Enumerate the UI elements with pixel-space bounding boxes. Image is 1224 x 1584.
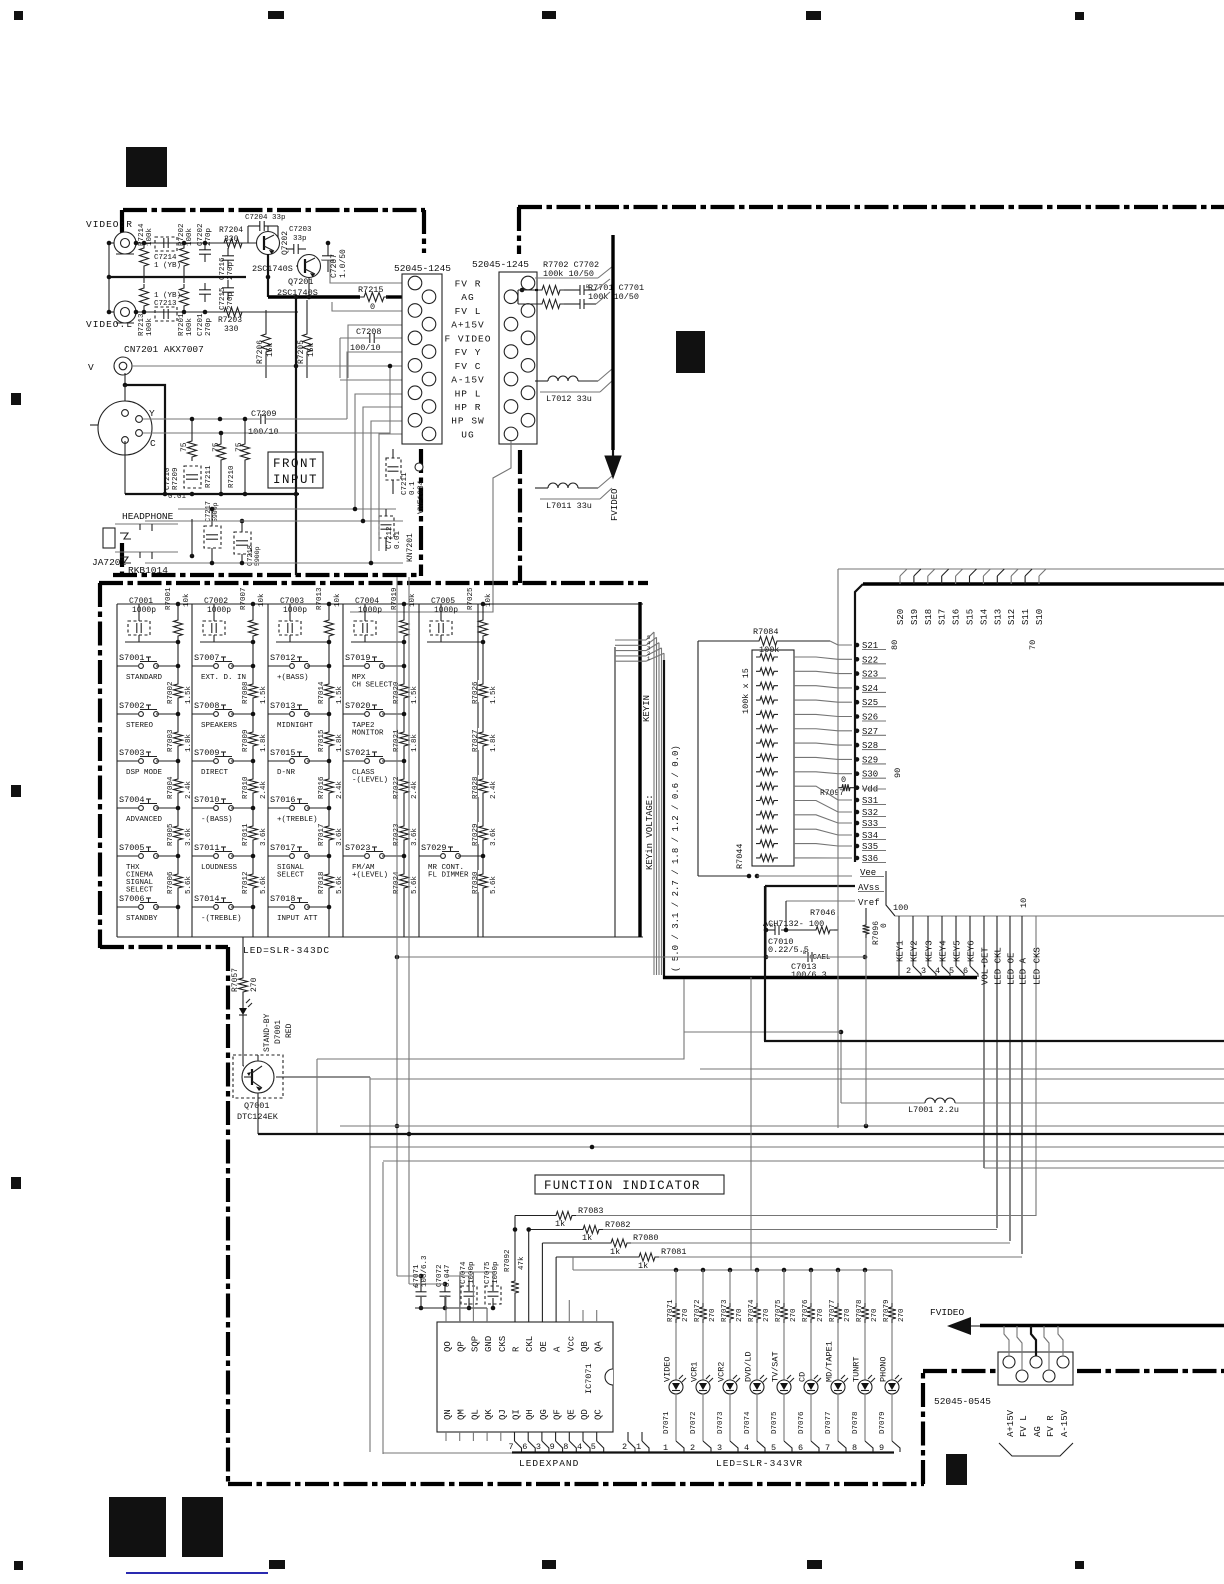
svg-text:LED=SLR-343VR: LED=SLR-343VR [716,1458,803,1469]
svg-text:1: 1 [636,1442,641,1452]
resistor R7016 2.4k [318,775,344,799]
svg-text:INPUT: INPUT [273,473,318,487]
svg-text:10k: 10k [334,593,342,607]
resistor R7009 1.8k [242,728,268,752]
svg-text:R7025: R7025 [467,587,475,610]
IC7071 bottom stubs [446,1432,604,1452]
resistor R7702 capacitor C7702 [535,260,599,295]
LED D7071 VIDEO [663,1270,691,1453]
wire svideo Y [143,352,402,421]
svg-text:3: 3 [717,1443,722,1453]
resistor R7013 10k [316,587,342,640]
svg-text:RED: RED [285,1023,294,1038]
svg-text:R7044: R7044 [735,843,745,869]
svg-text:100/6.3: 100/6.3 [791,970,827,980]
svg-text:VOL-DET: VOL-DET [981,947,991,985]
wire y1126 [340,1124,1224,1129]
svg-text:3.6k: 3.6k [185,827,193,846]
svg-text:STEREO: STEREO [126,722,154,730]
svg-text:R7075: R7075 [775,1299,783,1322]
svg-text:PHONO: PHONO [879,1356,889,1382]
svg-text:2: 2 [906,966,911,976]
svg-text:CH SELECT: CH SELECT [352,682,393,690]
resistor R7018 5.6k [318,870,344,894]
svg-text:R7080: R7080 [633,1233,659,1243]
label CN7201 AKX7007 [124,344,204,355]
svg-text:ADVANCED: ADVANCED [126,816,163,824]
svg-text:HP R: HP R [455,402,482,413]
svg-text:SPEAKERS: SPEAKERS [201,722,238,730]
svg-text:7: 7 [825,1443,830,1453]
svg-text:LED CKS: LED CKS [1033,947,1043,985]
switch S7003 [117,748,180,777]
column 5 bus [427,640,485,937]
wire x841 L7001 net [839,1030,1224,1103]
svg-text:5900p: 5900p [212,502,219,522]
bottom block square 1 [109,1497,166,1557]
IC7071 extra pins 2 1 [622,1432,649,1452]
svg-text:QJ: QJ [498,1409,508,1420]
svg-text:2SC1740S: 2SC1740S [252,264,293,274]
wire y1147 [370,1145,1224,1150]
svg-text:VCR1: VCR1 [690,1362,700,1382]
IC top bus [838,568,1224,570]
svg-text:KEY3: KEY3 [925,940,935,962]
svg-text:1.5k: 1.5k [260,685,268,704]
svg-text:SELECT: SELECT [277,872,305,880]
svg-text:270p: 270p [205,318,213,336]
inductor L7012 [535,369,612,404]
svg-text:3.6k: 3.6k [260,827,268,846]
svg-text:8: 8 [852,1443,857,1453]
wire v jack [123,364,402,388]
svg-text:5: 5 [591,1442,596,1452]
svg-text:D7071: D7071 [663,1411,671,1434]
svg-text:9: 9 [550,1442,555,1452]
cluster wires [766,886,870,957]
capacitor C7002 1000p [203,597,231,642]
wire Q7201 collector to FV R [321,260,402,283]
switch S7006 [117,894,180,923]
svg-text:R7084: R7084 [753,627,779,637]
svg-text:D7079: D7079 [879,1411,887,1434]
resistor R7204 [219,226,246,248]
svg-text:R7019: R7019 [391,587,399,610]
svg-text:4: 4 [744,1443,749,1453]
svg-text:2: 2 [622,1442,627,1452]
resistor R7213 [138,284,154,336]
svg-text:1.5k: 1.5k [185,685,193,704]
capacitor C7214 [154,237,181,270]
svg-text:5.6k: 5.6k [490,875,498,894]
svg-text:D7075: D7075 [771,1411,779,1434]
resistor R7092 47k [504,1249,526,1322]
resistor R7084 100k [698,627,852,655]
svg-text:1k: 1k [582,1233,592,1243]
svg-text:1.8k: 1.8k [260,733,268,752]
capacitor C7074 1000p [460,1261,477,1310]
IC left pins S21-S36 [855,641,886,864]
resistor R7201 [178,284,194,336]
svg-text:( 5.0 / 3.1 / 2.7 / 1.8 / 1.2: ( 5.0 / 3.1 / 2.7 / 1.8 / 1.2 / 0.6 / 0.… [671,745,681,972]
resistor R7025 10k [467,587,493,640]
svg-text:Q7202: Q7202 [281,231,290,255]
svg-text:VIDEO: VIDEO [663,1356,673,1382]
svg-text:C7203: C7203 [289,226,312,234]
wire y1161 [383,1160,1224,1162]
wire y1032 [684,1031,841,1033]
svg-text:R7071: R7071 [667,1299,675,1322]
svg-text:3: 3 [536,1442,541,1452]
svg-text:S19: S19 [910,609,920,625]
svg-text:1k: 1k [610,1247,620,1257]
svg-text:2: 2 [690,1443,695,1453]
svg-text:FV R: FV R [455,279,482,290]
resistor R7024 5.6k [393,870,419,894]
switch S7021 [343,748,406,785]
svg-text:Vdd: Vdd [862,785,878,795]
label 2SC1740S upper [252,264,293,274]
IC7071 top pin labels [443,1336,604,1352]
label HEADPHONE [122,511,174,522]
svg-text:5.6k: 5.6k [336,875,344,894]
resistor R7021 1.8k [393,728,419,752]
wires hp to connector [340,380,402,565]
ladder to pin wires [794,657,852,858]
switch S7017 [268,843,331,880]
capacitor C7210 [168,466,201,501]
svg-text:10k: 10k [409,593,417,607]
svg-text:STANDARD: STANDARD [126,674,163,682]
IC top pins S20-S10 [896,569,1046,625]
capacitor C7202 [197,223,213,262]
svg-text:R7213: R7213 [138,313,146,336]
svg-text:100/6.3: 100/6.3 [421,1255,429,1287]
svg-text:IC7071: IC7071 [584,1363,594,1394]
connector 0545 brace [999,1443,1073,1456]
svg-text:QB: QB [580,1341,590,1352]
svg-text:270: 270 [763,1308,771,1322]
svg-text:9: 9 [879,1443,884,1453]
svg-text:LED=SLR-343DC: LED=SLR-343DC [243,945,330,956]
wire vertical x397 [395,577,400,1276]
svg-text:LEDEXPAND: LEDEXPAND [519,1458,579,1469]
wire thick emitter bus [266,254,402,297]
svg-text:1000p: 1000p [132,606,156,615]
svg-text:STAND-BY: STAND-BY [263,1013,272,1052]
svg-text:FV R: FV R [1046,1415,1056,1437]
svg-text:R7079: R7079 [883,1299,891,1322]
svg-text:C7003: C7003 [280,597,304,606]
svg-text:A+15V: A+15V [1006,1409,1016,1437]
resistor R7211 [205,431,226,494]
registration mark left 3 [11,1177,21,1189]
label keyin voltage values [671,745,681,972]
svg-text:R7046: R7046 [810,908,836,918]
resistor R7029 3.6k [472,822,498,846]
resistor R7096 [872,921,889,945]
svg-text:3.6k: 3.6k [411,827,419,846]
capacitor C7208 [340,327,402,378]
svg-text:S15: S15 [966,609,976,625]
svg-text:D7078: D7078 [852,1411,860,1434]
capacitor C7203 [286,226,312,254]
wire thick front vertical [294,295,299,575]
headphone wires [145,507,403,566]
svg-text:QD: QD [580,1409,590,1420]
IC pin numbers 80 90 100 70 10 [890,640,1038,913]
svg-text:CKL: CKL [525,1336,535,1352]
svg-text:1.5k: 1.5k [336,685,344,704]
RCA jack VIDEO R [114,232,136,254]
switch S7009 [192,748,255,777]
svg-text:-(BASS): -(BASS) [201,816,233,824]
svg-text:S18: S18 [924,609,934,625]
svg-text:L7011 33u: L7011 33u [546,501,592,511]
resistor R7003 1.8k [167,728,193,752]
svg-text:C7209: C7209 [251,409,277,419]
label R7044 [735,843,745,869]
svg-text:15k: 15k [266,342,275,357]
display-unit assembly border [228,947,1224,1485]
FVIDEO bus vertical [611,235,614,450]
svg-text:QO: QO [443,1341,453,1352]
transistor Q7001 DTC124EK [233,1022,283,1134]
svg-text:TUNRT: TUNRT [852,1356,862,1382]
svg-text:D7072: D7072 [690,1411,698,1434]
registration mark top 2 [268,11,284,19]
svg-text:80: 80 [890,640,900,650]
switch S7010 [192,795,255,824]
svg-text:1000p: 1000p [358,606,382,615]
svg-text:QP: QP [457,1341,467,1352]
resistor R7022 2.4k [393,775,419,799]
svg-text:S11: S11 [1021,609,1031,625]
svg-text:R7203: R7203 [218,316,242,325]
wire vertical x838 [837,569,839,1128]
svg-text:DVD/LD: DVD/LD [744,1351,754,1382]
label VIDEO:L [86,319,133,330]
resistor R7082 1k [513,1220,997,1322]
svg-text:KEY1: KEY1 [896,940,906,962]
svg-text:Q7201: Q7201 [288,277,314,287]
registration mark bottom 5 [1075,1561,1084,1569]
page block mark B [676,331,705,373]
svg-text:FV Y: FV Y [455,347,482,358]
svg-text:270: 270 [736,1308,744,1322]
svg-text:Q7001: Q7001 [244,1101,270,1111]
svg-text:FV C: FV C [455,361,482,372]
svg-text:VCR2: VCR2 [717,1362,727,1382]
svg-text:1: 1 [663,1443,668,1453]
resistor R7083 1k [515,1206,1036,1277]
svg-text:QE: QE [566,1409,576,1420]
svg-text:5: 5 [949,966,954,976]
svg-text:AG: AG [1033,1426,1043,1437]
svg-text:QL: QL [470,1409,480,1420]
svg-text:R7001: R7001 [165,587,173,610]
svg-text:3.6k: 3.6k [336,827,344,846]
svg-text:6: 6 [963,966,968,976]
wire Q7202 collector [268,226,278,238]
FUNCTION INDICATOR box [535,1175,724,1194]
svg-text:FV L: FV L [455,306,482,317]
svg-text:C7002: C7002 [204,597,228,606]
svg-text:CD: CD [798,1372,808,1382]
switch S7019 [343,653,406,690]
registration mark left 2 [11,785,21,797]
svg-text:KEYin VOLTAGE:: KEYin VOLTAGE: [645,794,655,870]
capacitor C7071 100/6.3 [413,1255,429,1310]
connector 52045-0545 [934,1352,1073,1407]
page block mark C [946,1454,967,1485]
svg-text:RKB1014: RKB1014 [128,565,168,576]
wire x751 [750,977,752,1270]
keyin lines [615,632,664,975]
blue underline [126,1572,268,1574]
svg-text:0.1: 0.1 [409,481,417,495]
capacitor C7005 1000p [430,597,458,642]
svg-text:100/10: 100/10 [248,427,279,437]
svg-text:1.8k: 1.8k [185,733,193,752]
svg-text:S12: S12 [1007,609,1017,625]
resistor R7080 1k [542,1233,1010,1322]
inductor L7001 2.2u [908,1098,959,1115]
ground bus y494 [125,441,299,496]
svg-text:C7208: C7208 [356,327,382,337]
LED D7072 VCR1 [690,1270,718,1453]
wire fvl [332,302,402,311]
svg-text:QK: QK [484,1409,494,1420]
capacitor C7216 [219,248,235,280]
wire ground bus left [107,241,246,315]
svg-text:1000p: 1000p [283,606,307,615]
svg-text:HP L: HP L [455,388,482,399]
svg-text:R7097: R7097 [820,789,844,798]
svg-text:1.8k: 1.8k [411,733,419,752]
resistor R7202 [178,223,194,283]
wire Q7001 collector [276,1076,370,1078]
svg-text:HEADPHONE: HEADPHONE [122,511,174,522]
capacitor C7209 [248,409,279,437]
bottom block square 2 [182,1497,223,1557]
resistor R7081 1k [556,1247,1022,1322]
LED D7074 DVD/LD [744,1270,772,1453]
capacitor C7217 [204,501,221,563]
wire a15 [348,325,402,378]
wire svideo feed [125,385,165,494]
resistor R7057 270 [231,937,259,1004]
svg-text:100: 100 [893,903,908,913]
svg-text:330: 330 [224,325,239,334]
svg-text:+(LEVEL): +(LEVEL) [352,872,388,880]
svg-text:270: 270 [844,1308,852,1322]
svg-text:100k x 15: 100k x 15 [741,668,751,714]
switch S7007 [192,653,255,682]
resistor R7205 [297,300,316,378]
capacitor C7013 CAEL [764,950,868,980]
svg-text:100k: 100k [186,317,194,336]
svg-text:VNF1084: VNF1084 [417,480,426,514]
function indicator box frame [383,1162,512,1454]
svg-text:Y: Y [149,408,155,419]
svg-text:D7076: D7076 [798,1411,806,1434]
svg-text:A-15V: A-15V [451,375,485,386]
capacitor C7001 1000p [128,597,156,642]
svg-text:R7210: R7210 [228,465,236,488]
column 3 bus [276,640,331,937]
svg-text:FV L: FV L [1019,1415,1029,1437]
svg-text:SQP: SQP [470,1336,480,1352]
registration mark bottom 2 [269,1560,285,1569]
svg-text:S20: S20 [896,609,906,625]
resistor R7006 5.6k [167,870,193,894]
column 1 bus [125,640,180,937]
wire vertical x409 [407,577,412,1284]
svg-text:1 (YB): 1 (YB) [154,262,181,270]
column 2 bus [200,640,255,937]
wire x866 [865,938,867,1126]
resistor R7030 5.6k [472,870,498,894]
wire thick y1134 [258,1133,1224,1135]
switch S7005 [117,843,180,895]
headphone jack JA7201 [92,524,178,568]
svg-text:5.6k: 5.6k [260,875,268,894]
svg-text:10k: 10k [183,593,191,607]
svg-text:JA7201: JA7201 [92,557,127,568]
registration mark top 3 [542,11,556,19]
svg-text:D7077: D7077 [825,1411,833,1434]
svg-text:D7073: D7073 [717,1411,725,1434]
LED D7073 VCR2 [717,1270,745,1453]
svg-text:0: 0 [880,923,889,928]
svg-text:VIDEO:R: VIDEO:R [86,219,133,230]
svg-text:D7074: D7074 [744,1411,752,1434]
resistor ladder 100k x 15 [741,650,794,866]
svg-text:V: V [88,362,94,373]
svg-text:R7074: R7074 [748,1299,756,1322]
svg-text:MD/TAPE1: MD/TAPE1 [825,1341,835,1382]
resistor R7002 1.5k [167,680,193,704]
svg-text:L7012 33u: L7012 33u [546,394,592,404]
svg-text:2.4k: 2.4k [411,780,419,799]
svg-text:R7013: R7013 [316,587,324,610]
svg-text:8: 8 [563,1442,568,1452]
resistor R7027 1.8k [472,728,498,752]
svg-text:LED OE: LED OE [1007,953,1017,985]
svg-text:KN7201: KN7201 [406,533,415,562]
svg-text:270: 270 [682,1308,690,1322]
svg-text:R7204: R7204 [219,226,243,235]
svg-text:S17: S17 [938,609,948,625]
svg-text:S16: S16 [952,609,962,625]
svg-text:1k: 1k [555,1219,565,1229]
keyin thick bus [663,660,977,979]
svg-text:QM: QM [457,1409,467,1420]
svg-text:70: 70 [1028,640,1038,650]
LEDEXPAND bus [512,1453,894,1470]
svg-text:S13: S13 [993,609,1003,625]
svg-text:STANDBY: STANDBY [126,915,158,923]
switch S7014 [192,894,255,923]
svg-text:0.01: 0.01 [394,530,402,549]
svg-text:6: 6 [798,1443,803,1453]
svg-text:-(TREBLE): -(TREBLE) [201,915,242,923]
svg-text:6: 6 [522,1442,527,1452]
label VIDEO:R [86,219,133,230]
LED D7078 TUNRT [852,1270,880,1453]
wire conn2 bottom route [350,441,511,612]
